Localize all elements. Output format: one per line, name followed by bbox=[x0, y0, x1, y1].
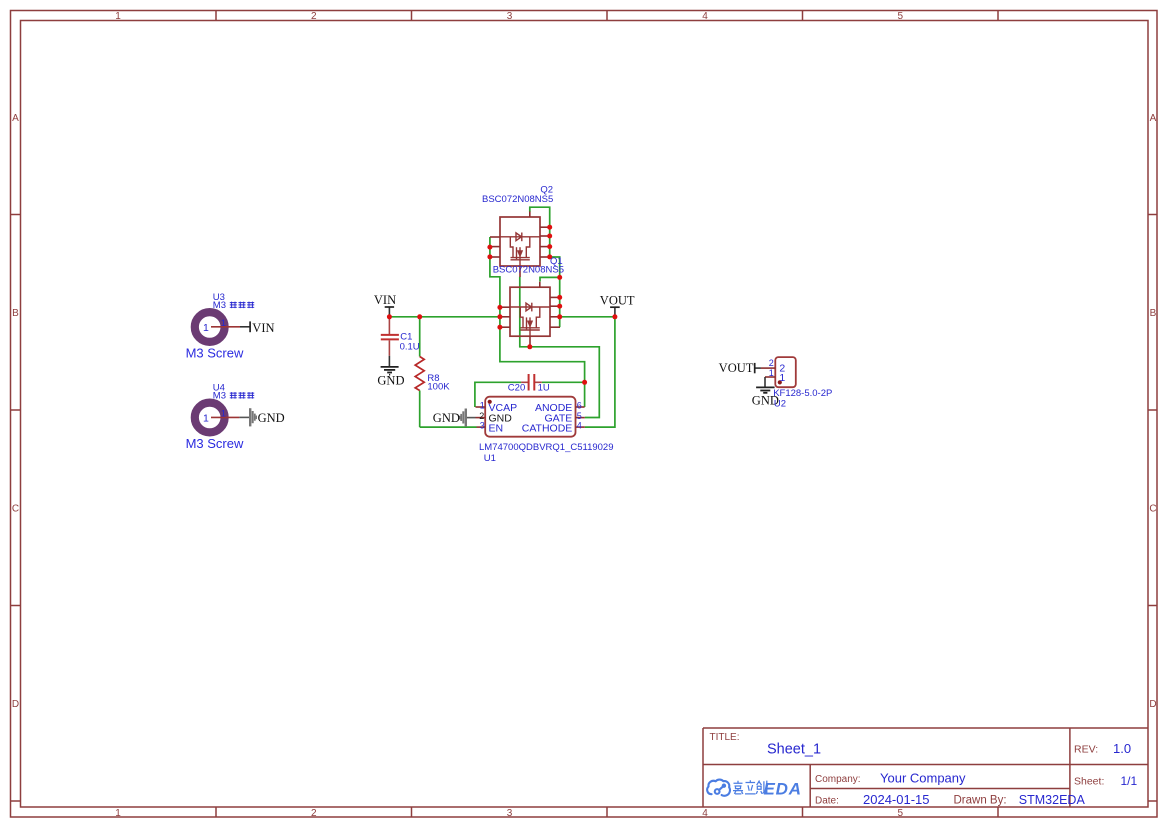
svg-text:3: 3 bbox=[507, 808, 513, 819]
svg-text:GND: GND bbox=[258, 411, 285, 425]
svg-text:Company:: Company: bbox=[815, 774, 861, 785]
svg-text:100K: 100K bbox=[427, 382, 450, 393]
svg-text:1: 1 bbox=[221, 409, 226, 420]
svg-text:M3: M3 bbox=[213, 391, 226, 402]
svg-text:1: 1 bbox=[115, 11, 121, 22]
svg-text:1: 1 bbox=[221, 318, 226, 329]
svg-text:EN: EN bbox=[489, 423, 504, 435]
svg-text:Sheet_1: Sheet_1 bbox=[767, 742, 821, 758]
svg-text:2: 2 bbox=[311, 11, 317, 22]
svg-text:5: 5 bbox=[898, 808, 904, 819]
svg-text:EDA: EDA bbox=[764, 779, 802, 798]
svg-text:C: C bbox=[1149, 504, 1156, 515]
svg-text:B: B bbox=[1150, 308, 1157, 319]
svg-text:2024-01-15: 2024-01-15 bbox=[863, 792, 930, 807]
svg-text:STM32EDA: STM32EDA bbox=[1019, 793, 1086, 807]
svg-text:M3: M3 bbox=[213, 300, 226, 311]
svg-text:1U: 1U bbox=[538, 383, 550, 394]
svg-text:VOUT: VOUT bbox=[719, 361, 754, 375]
svg-text:GND: GND bbox=[433, 411, 460, 425]
svg-text:1: 1 bbox=[115, 808, 121, 819]
svg-text:U1: U1 bbox=[484, 453, 496, 464]
svg-text:C20: C20 bbox=[508, 383, 525, 394]
svg-text:0.1U: 0.1U bbox=[400, 341, 420, 352]
svg-text:Sheet:: Sheet: bbox=[1074, 776, 1104, 788]
svg-text:U2: U2 bbox=[774, 399, 786, 410]
svg-text:3: 3 bbox=[480, 421, 485, 431]
svg-text:D: D bbox=[12, 699, 19, 710]
svg-text:4: 4 bbox=[577, 421, 582, 431]
svg-text:A: A bbox=[1150, 113, 1157, 124]
svg-text:2: 2 bbox=[769, 358, 774, 368]
svg-text:4: 4 bbox=[702, 808, 708, 819]
svg-text:TITLE:: TITLE: bbox=[710, 732, 740, 743]
svg-text:VIN: VIN bbox=[374, 293, 396, 307]
svg-text:KF128-5.0-2P: KF128-5.0-2P bbox=[773, 388, 832, 399]
svg-text:M3 Screw: M3 Screw bbox=[186, 346, 244, 361]
svg-text:1: 1 bbox=[480, 401, 485, 411]
svg-text:1: 1 bbox=[203, 413, 209, 425]
svg-text:C: C bbox=[12, 504, 19, 515]
svg-text:3: 3 bbox=[507, 11, 513, 22]
svg-text:LM74700QDBVRQ1_C5119029: LM74700QDBVRQ1_C5119029 bbox=[479, 442, 614, 453]
svg-text:1: 1 bbox=[769, 368, 774, 378]
svg-text:4: 4 bbox=[702, 11, 708, 22]
svg-text:CATHODE: CATHODE bbox=[522, 423, 573, 435]
svg-text:1: 1 bbox=[203, 322, 209, 334]
svg-text:GND: GND bbox=[377, 373, 404, 387]
svg-text:D: D bbox=[1149, 699, 1156, 710]
svg-text:VOUT: VOUT bbox=[600, 293, 635, 307]
svg-text:A: A bbox=[12, 113, 19, 124]
svg-text:B: B bbox=[12, 308, 19, 319]
svg-text:M3 Screw: M3 Screw bbox=[186, 436, 244, 451]
svg-text:1: 1 bbox=[779, 372, 785, 384]
svg-text:VIN: VIN bbox=[252, 321, 274, 335]
svg-text:1.0: 1.0 bbox=[1113, 741, 1131, 756]
svg-text:BSC072N08NS5: BSC072N08NS5 bbox=[493, 265, 564, 276]
svg-text:5: 5 bbox=[577, 411, 582, 421]
svg-text:BSC072N08NS5: BSC072N08NS5 bbox=[482, 194, 553, 205]
svg-text:Your Company: Your Company bbox=[880, 771, 966, 786]
svg-text:Drawn By:: Drawn By: bbox=[954, 795, 1007, 807]
svg-text:2: 2 bbox=[479, 411, 484, 421]
svg-text:1/1: 1/1 bbox=[1121, 774, 1138, 788]
svg-text:2: 2 bbox=[311, 808, 317, 819]
svg-text:6: 6 bbox=[577, 401, 582, 411]
svg-text:Date:: Date: bbox=[815, 796, 839, 807]
svg-text:5: 5 bbox=[898, 11, 904, 22]
svg-text:REV:: REV: bbox=[1074, 744, 1098, 756]
